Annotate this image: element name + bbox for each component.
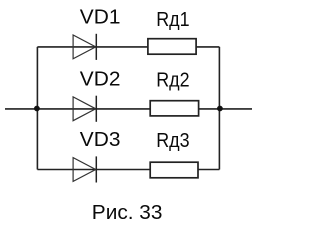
svg-text:VD1: VD1	[80, 7, 121, 29]
svg-text:VD2: VD2	[80, 68, 121, 90]
svg-text:Rд3: Rд3	[156, 130, 189, 152]
svg-text:Рис. 33: Рис. 33	[92, 202, 163, 224]
svg-text:VD3: VD3	[80, 129, 121, 151]
svg-text:Rд2: Rд2	[156, 70, 189, 92]
svg-text:Rд1: Rд1	[156, 9, 189, 31]
